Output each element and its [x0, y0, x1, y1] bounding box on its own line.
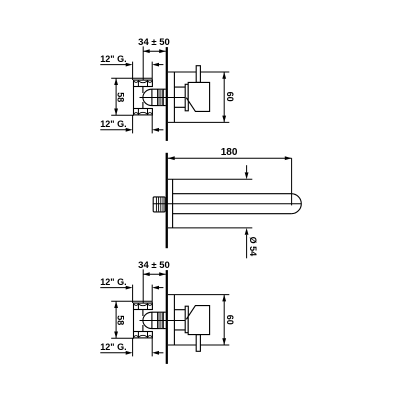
svg-text:180: 180 [221, 147, 238, 158]
collar top edge + ext line [168, 178, 252, 180]
mixing valve (bottom) [100, 260, 186, 364]
threaded inlet stub [153, 197, 165, 212]
spout centerline [153, 203, 301, 205]
Ø54 lower arrow [246, 235, 248, 258]
mixing valve (top) [100, 37, 186, 141]
spout rounded tip [291, 194, 301, 214]
svg-text:60: 60 [225, 315, 235, 325]
collar right edge [172, 179, 174, 228]
collar bottom edge + ext line [168, 227, 252, 229]
handle (top) [168, 66, 229, 123]
spout tube [173, 194, 292, 214]
handle (bottom, mirrored) [168, 295, 229, 352]
dim line 180 [168, 157, 292, 159]
180 extension line right [291, 158, 293, 205]
svg-text:Ø 54: Ø 54 [248, 237, 258, 257]
Ø54 upper arrow [246, 165, 248, 172]
wall plate (middle) [166, 153, 168, 248]
svg-text:60: 60 [225, 92, 235, 102]
